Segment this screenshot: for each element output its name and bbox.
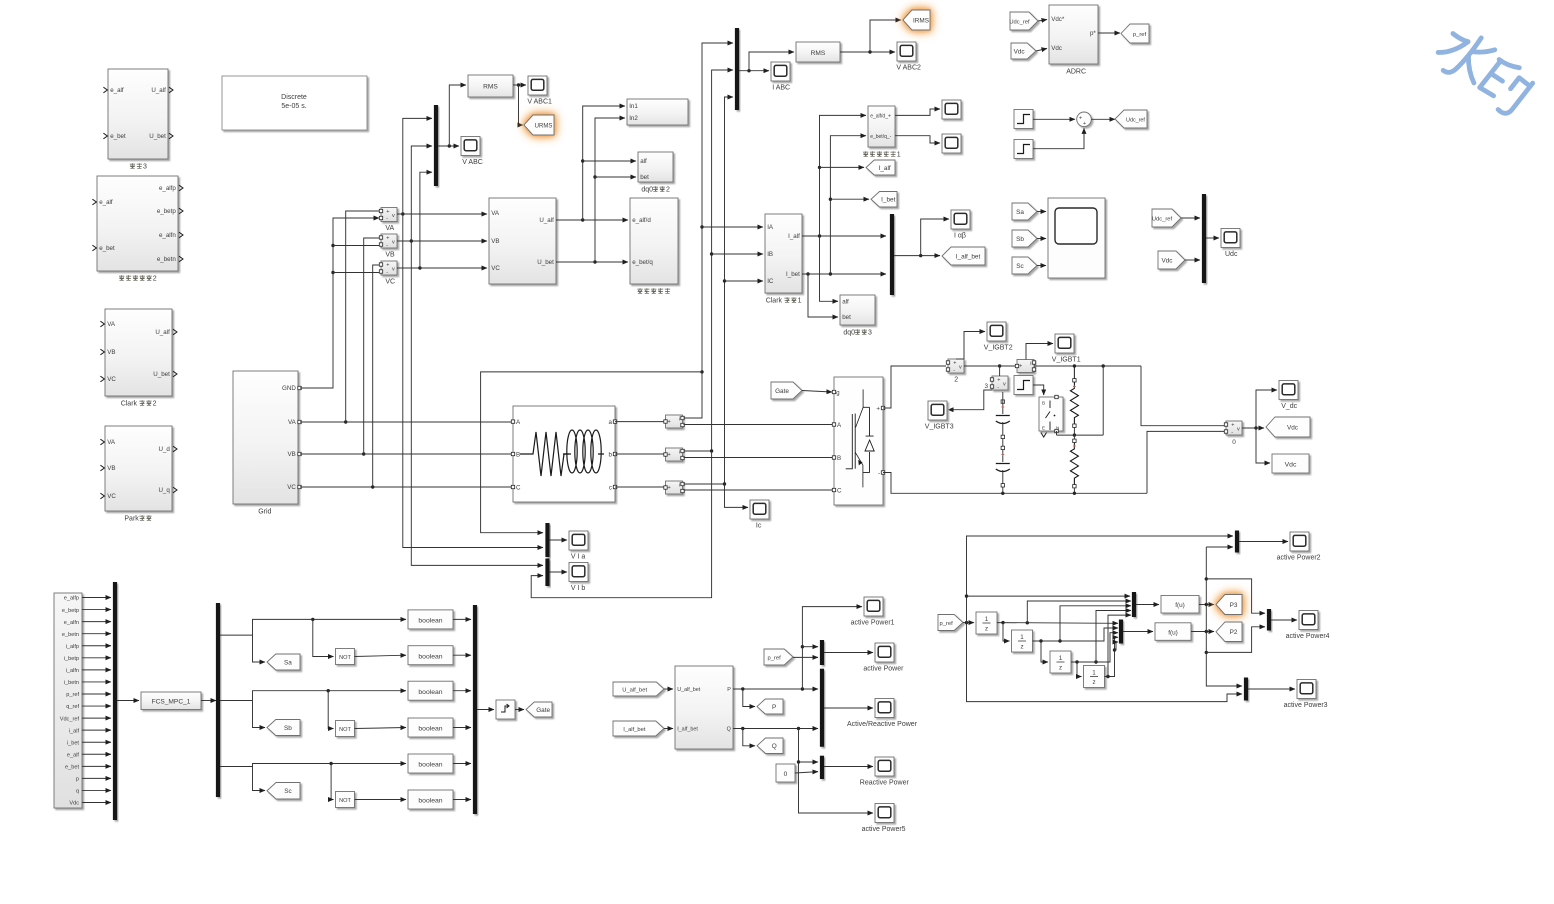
wire conv + rail [883,366,946,408]
voltage measurement VB [381,234,397,248]
junction b3 tee [329,762,332,765]
scope V_IGBT2 [987,322,1006,341]
mux VIb [545,559,549,587]
wire bool out 691 [453,690,471,692]
junction z4 tee1 [1106,675,1109,678]
block NOT 1 [336,649,355,665]
wire Ib to conv B [684,457,833,459]
wire rail1 top [1073,366,1075,379]
tag Udc_ref from2 [1152,209,1181,227]
scope I alfbet scope [951,210,970,229]
svg-text:Sa: Sa [1016,209,1024,216]
svg-text:C: C [837,487,842,494]
svg-text:In1: In1 [629,103,638,110]
wire ia signal up [684,43,734,418]
tag I_bet goto [871,192,897,208]
svg-text:Vdc: Vdc [1287,424,1299,431]
step step2 [1014,140,1033,159]
wire Grid VB [300,453,513,455]
wire stack e_betn [82,633,111,635]
wire capv3 [1002,470,1004,493]
capacitor C1 [996,416,1010,424]
tag Sb goto [267,720,300,736]
block ADRC [1049,5,1098,64]
junction VB tee [362,452,365,455]
svg-text:V ABC1: V ABC1 [527,99,552,106]
svg-text:IC: IC [767,278,774,285]
svg-text:I_bet: I_bet [786,271,800,278]
wire z1 out [997,622,1118,625]
wire vdc out [1242,427,1264,429]
junction Vmux out tee [448,144,451,147]
svg-text:NOT: NOT [339,727,351,733]
svg-text:Vdc*: Vdc* [1051,16,1065,23]
wire rmux out [824,766,873,768]
wire step to breaker [1033,385,1044,395]
junction fcn2 tee [1205,630,1208,633]
svg-text:+: + [386,209,389,215]
junction ia VIa tee [700,370,703,373]
wire fcs out [201,700,216,702]
wire IA in [702,226,763,228]
junction Iab tee [919,254,922,257]
wire RL a to Ia [615,421,664,423]
wire ap3mux out [1248,688,1295,690]
wire stack q_ref [82,705,111,707]
junction bot j1 [1001,492,1004,495]
svg-text:VA: VA [491,210,500,217]
tag Sc from [1012,257,1037,274]
junction P tee3 [801,645,804,648]
wire b3 not [331,764,333,800]
junction z1 tee1 [1001,621,1004,624]
voltage measurement VA [381,208,397,222]
svg-text:P3: P3 [1230,602,1238,609]
junction z1 tee2 [1026,621,1029,624]
svg-text:V I b: V I b [571,585,586,592]
wire z1 up tap [1027,601,1131,623]
tag Udc_ref goto [1115,110,1147,128]
svg-text:active Power2: active Power2 [1277,555,1321,562]
svg-text:I_bet: I_bet [881,197,895,204]
svg-text:Vdc_ref: Vdc_ref [60,716,80,722]
block breaker [1039,397,1063,431]
svg-text:alf: alf [842,299,849,306]
scope V I a [569,531,588,550]
svg-text:e_betn: e_betn [62,632,79,638]
wire Grid VA [300,421,513,423]
junction ic down tee [723,482,726,485]
junction Ubet tee [593,260,596,263]
wire Ialf up [820,115,867,236]
wire pref chain [963,622,974,624]
junction loop mid [965,594,968,597]
wire z4 up tap [1108,615,1131,676]
polarity mark [1001,406,1004,409]
svg-text:U_d: U_d [158,446,170,453]
tag Sb from [1012,230,1037,247]
block boolean 4 [408,718,453,737]
svg-text:B: B [516,451,520,458]
wire stack i_alfn [82,669,111,671]
svg-text:-: - [386,216,388,222]
svg-text:3: 3 [868,330,872,337]
wire vmeas3 top [999,366,1001,376]
svg-text:P: P [727,687,731,693]
svg-text:Park: Park [124,516,139,523]
scope active Power [875,643,894,662]
block boolean 1 [408,610,453,629]
svg-text:1: 1 [985,616,989,623]
svg-text:FCS_MPC_1: FCS_MPC_1 [152,699,191,706]
wire z2 out [1033,628,1119,641]
wire imeas out up [1026,344,1053,360]
wire Ibet out [802,273,886,275]
svg-text:g: g [836,391,839,397]
junction Ualf dq0 [581,159,584,162]
block Park [105,426,172,511]
svg-text:GND: GND [282,385,296,392]
svg-text:In2: In2 [629,115,638,122]
wire ic to scope Ic [725,484,749,507]
wire to URMS [519,85,524,125]
wire P up [802,607,862,689]
svg-text:e_alfp: e_alfp [64,596,79,602]
scope V ABC [461,137,480,156]
wire ib down to VIb [531,451,711,598]
wire RL b to Ib [615,453,664,455]
wire to RMS [449,85,466,146]
svg-text:V I a: V I a [571,554,586,561]
junction RMS tee [517,83,520,86]
svg-text:e_alfn: e_alfn [64,620,79,626]
wire not1 out [355,655,407,656]
svg-text:+: + [668,485,671,491]
wire breaker N down [1056,431,1058,435]
svg-text:-: - [386,242,388,248]
block fenxu3 [108,69,168,159]
tag Sa from [1012,203,1037,220]
svg-text:v: v [959,364,962,370]
voltage measurement VC [381,261,397,275]
wire VCmeas out [397,267,487,269]
svg-text:0: 0 [784,771,788,778]
wire not2 out [355,728,407,729]
svg-text:-: - [953,367,955,373]
wire demux b3 [220,764,406,767]
wire VBmeas out [397,240,487,242]
wire Ubet to dq0 [595,176,636,178]
junction Ialf tee [818,234,821,237]
wire VIa horiz [481,372,702,533]
wire Ialf down dq0 [820,236,839,301]
block RMS2 [796,42,840,62]
svg-text:f(u): f(u) [1175,602,1185,609]
wire step1 to sum [1033,118,1075,120]
svg-text:V ABC: V ABC [462,159,483,166]
svg-text:E: E [1042,426,1045,431]
wire b2 sb [253,701,266,728]
svg-text:3: 3 [984,383,988,390]
svg-text:2: 2 [153,401,157,408]
wire rt to gate [515,709,524,711]
svg-text:VC: VC [385,279,395,286]
wire Ialf out [802,235,886,237]
junction VA tee [344,420,347,423]
svg-text:URMS: URMS [535,123,553,129]
svg-text:e_alf/d_+: e_alf/d_+ [870,114,891,120]
svg-text:-: - [386,269,388,275]
wire VC up to sum [373,265,379,487]
tag Vdc goto [1266,417,1310,437]
block signal stack [54,593,82,808]
svg-text:V_IGBT3: V_IGBT3 [925,424,954,431]
wire demux b2 [220,691,406,701]
wire VA up to Vmux [403,118,432,214]
block PQ [675,666,733,749]
wire r1 loop up [1102,366,1104,435]
port Grid port [298,452,301,455]
wire Q to rmux [799,761,819,763]
svg-text:1: 1 [1092,670,1096,677]
scope V_dc [1279,381,1298,400]
svg-text:Sa: Sa [284,659,292,666]
svg-text:VA: VA [107,439,116,446]
wire bool out 655 [453,654,471,656]
port cap port d [1001,484,1004,487]
svg-text:+: + [1019,363,1022,369]
wire to I_bet goto [830,198,869,200]
scope pn1 scope b [942,134,961,153]
tag IRMS goto [903,10,930,30]
wire ialfbet in [664,728,673,730]
svg-text:Vdc: Vdc [1161,257,1173,264]
svg-text:1: 1 [1020,634,1024,641]
block Clark1 [765,214,802,293]
svg-text:P: P [772,704,776,711]
svg-text:i_alfp: i_alfp [66,644,79,650]
svg-text:z: z [1092,679,1095,686]
svg-text:-: - [878,470,880,477]
junction Imux tee [747,69,750,72]
svg-text:RMS: RMS [811,50,826,57]
junction z2 tee2 [1058,639,1061,642]
junction res1 bottom j [1073,433,1076,436]
wire step2 to sum [1033,128,1084,148]
wire fcsmux out [117,700,139,702]
svg-text:I αβ: I αβ [954,233,966,240]
svg-text:i: i [1030,361,1031,367]
block IGBT converter [834,377,883,505]
mux I abc [735,28,739,110]
current measurement rail i [1017,360,1034,373]
svg-text:p_ref: p_ref [1133,32,1147,38]
block boolean 2 [408,646,453,665]
wire VA up to sum [346,211,379,422]
wire mux2 out [1123,631,1153,633]
scope active Power2 [1290,532,1309,551]
svg-text:IRMS: IRMS [913,17,929,24]
wire sb in [1037,238,1046,240]
svg-text:U_alf_bet: U_alf_bet [622,687,647,693]
wire stack q [82,789,111,791]
svg-text:v: v [1237,426,1240,432]
tag p_ref from4 [938,615,963,631]
junction z3 tee2 [1094,660,1097,663]
current measurement Ic [666,481,683,494]
block Grid [233,371,298,504]
wire pref to apmux [793,656,818,658]
svg-text:-: - [997,384,999,390]
junction GND-VB [331,244,334,247]
block RL branch [513,406,615,502]
wire Q to Qgoto [743,729,755,746]
wire VAmeas out [397,213,487,215]
port Grid port [298,485,301,488]
svg-text:NOT: NOT [339,798,351,804]
wire conv - rail [883,473,1147,494]
wire ap2mux out [1239,541,1288,543]
svg-text:RMS: RMS [483,84,498,91]
wire bool out 764 [453,763,471,765]
svg-text:2: 2 [954,377,958,384]
svg-text:I_alf: I_alf [879,165,891,172]
svg-text:active Power: active Power [863,666,904,673]
wire collector top [1206,546,1233,548]
wire stack i_betn [82,681,111,683]
scope ActiveReactive Power [875,699,894,718]
wire rail seg3 [1034,365,1141,367]
svg-text:IA: IA [767,224,774,231]
svg-text:e_bet: e_bet [110,133,126,140]
wire breaker rail [1057,434,1104,436]
junction rail j1 [998,364,1001,367]
wire vmeas2 out up [956,332,985,360]
resistor R2 [1070,441,1078,486]
wire Grid VC [300,486,513,488]
svg-text:VB: VB [385,252,395,259]
tag Udc_ref from [1010,12,1038,30]
wire udcmux out [1206,237,1219,239]
mux pred1 [1132,592,1136,617]
wire GND to VC- [333,272,379,274]
junction VCmeas tee [418,266,421,269]
mux activePower2 [1235,531,1239,553]
wire VIb out [550,571,568,573]
svg-text:Udc_ref: Udc_ref [1126,117,1145,123]
junction RMS2 tee [868,50,871,53]
junction vdc tee [1254,426,1257,429]
wire not3 out [355,799,407,801]
block fcn2 [1155,623,1191,641]
voltage measurement 0 [1226,421,1242,435]
wire VC up to Vmux [420,172,432,268]
scope active Power5 [875,804,894,823]
wire z1 to z2 [1003,623,1010,641]
wire sa in [1037,211,1046,213]
mux pred2 [1119,620,1123,644]
wire Ualf up [583,106,625,220]
block Vdc display [1272,454,1309,473]
svg-text:VB: VB [288,451,296,458]
wire Q out [733,728,818,730]
junction P tee1 [741,687,744,690]
wire r1 to rail [1073,427,1075,435]
svg-text:U_alf: U_alf [155,329,170,336]
svg-text:VA: VA [385,225,394,232]
svg-text:Clark: Clark [121,401,138,408]
mux bool out [473,605,477,814]
block boolean 3 [408,681,453,700]
wire udcref to adrc [1038,20,1047,22]
svg-text:5e-05 s.: 5e-05 s. [281,103,306,110]
svg-text:VC: VC [491,265,500,272]
svg-text:NOT: NOT [339,655,351,661]
svg-text:v: v [392,266,395,272]
wire stack p_ref [82,693,111,695]
block clark-abc [489,198,556,284]
svg-text:+: + [668,452,671,458]
wire bool out 800 [453,799,471,801]
tag p_ref goto [1121,24,1149,43]
wire stack i_alfp [82,645,111,647]
svg-text:1: 1 [897,152,901,159]
wire ualfbet in [664,688,673,690]
svg-text:0: 0 [1232,439,1236,446]
svg-text:VC: VC [107,493,116,500]
svg-text:Vdc: Vdc [69,801,79,807]
wire fcn1 out [1199,604,1214,606]
wire VB up to sum [364,238,379,454]
svg-text:IB: IB [767,251,773,258]
svg-text:e_alf: e_alf [110,87,124,94]
svg-text:e_alf: e_alf [67,752,80,758]
svg-text:Gate: Gate [775,388,789,395]
wire box top [1206,579,1265,613]
wire z2 to z3 [1041,641,1048,662]
wire P to apmux [802,646,818,648]
wire fcn2 out [1191,631,1214,633]
svg-text:v: v [392,213,395,219]
svg-text:VC: VC [287,484,296,491]
polarity mark [1073,445,1076,448]
block Clark2 [105,309,172,396]
wire mux1 out [1136,604,1159,606]
block FCS_MPC_1 [141,692,201,710]
scope Udc [1221,229,1240,248]
step breaker step [1014,376,1033,395]
wire stack e_alfn [82,621,111,623]
junction z4 tee2 [1113,648,1116,651]
scope active Power3 [1297,680,1316,699]
wire z2 up tap [1060,606,1131,641]
scope V_IGBT3 [928,401,947,420]
svg-text:Grid: Grid [258,509,271,516]
svg-text:+: + [997,378,1000,384]
wire P to Pgoto [743,689,755,707]
current measurement Ib [666,448,683,461]
wire U_bet out [556,261,628,263]
svg-text:VB: VB [107,465,115,472]
wire box bottom [1206,627,1265,653]
mux FCS in [113,582,117,820]
wire b2 not [328,691,333,729]
wire vdc2 in [1185,259,1200,261]
tag P3 goto [1216,595,1242,615]
wire demux b1 [220,619,406,635]
block Discrete powergui [222,76,367,130]
scope I ABC [771,62,790,81]
